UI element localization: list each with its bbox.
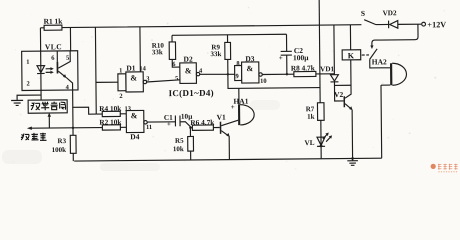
svg-text:33k: 33k	[152, 48, 163, 56]
svg-text:10k: 10k	[173, 145, 184, 153]
svg-text:100μ: 100μ	[293, 53, 309, 62]
svg-text:VD1: VD1	[320, 65, 334, 73]
svg-text:2: 2	[119, 93, 122, 100]
svg-text:R1 1k: R1 1k	[44, 17, 64, 26]
svg-text:R2 10k: R2 10k	[99, 117, 122, 126]
svg-text:+12V: +12V	[427, 20, 446, 29]
svg-text:&: &	[131, 111, 138, 120]
svg-text:R6 4.7k: R6 4.7k	[190, 118, 215, 127]
svg-text:+: +	[279, 55, 283, 62]
svg-text:&: &	[246, 64, 253, 73]
svg-text:VD2: VD2	[383, 9, 397, 17]
svg-text:IC(D1~D4): IC(D1~D4)	[169, 88, 214, 98]
svg-text:V2: V2	[334, 90, 344, 99]
svg-text:2: 2	[26, 80, 29, 87]
svg-text:R8 4.7k: R8 4.7k	[291, 63, 316, 72]
svg-text:R4 10k: R4 10k	[99, 104, 122, 113]
svg-text:R3: R3	[57, 137, 66, 145]
svg-text:33k: 33k	[210, 50, 221, 58]
svg-text:+: +	[167, 121, 171, 128]
svg-text:14: 14	[139, 65, 146, 72]
svg-text:HA2: HA2	[372, 57, 387, 66]
svg-text:1: 1	[119, 67, 122, 74]
svg-text:D1: D1	[126, 64, 136, 73]
svg-text:K: K	[348, 51, 355, 60]
svg-text:V1: V1	[217, 113, 227, 122]
svg-text:11: 11	[146, 124, 152, 131]
svg-text:R5: R5	[175, 137, 184, 145]
svg-text:100k: 100k	[52, 146, 67, 154]
svg-text:D4: D4	[130, 132, 140, 141]
svg-text:D2: D2	[183, 55, 193, 64]
svg-text:1: 1	[26, 59, 29, 66]
svg-text:&: &	[130, 73, 137, 82]
svg-text:&: &	[185, 66, 192, 75]
svg-text:VLC: VLC	[45, 42, 62, 51]
svg-text:D3: D3	[245, 54, 255, 63]
svg-text:S: S	[361, 9, 365, 18]
svg-text:1k: 1k	[307, 113, 315, 121]
svg-text:+: +	[231, 103, 235, 111]
svg-text:VL: VL	[305, 139, 315, 147]
